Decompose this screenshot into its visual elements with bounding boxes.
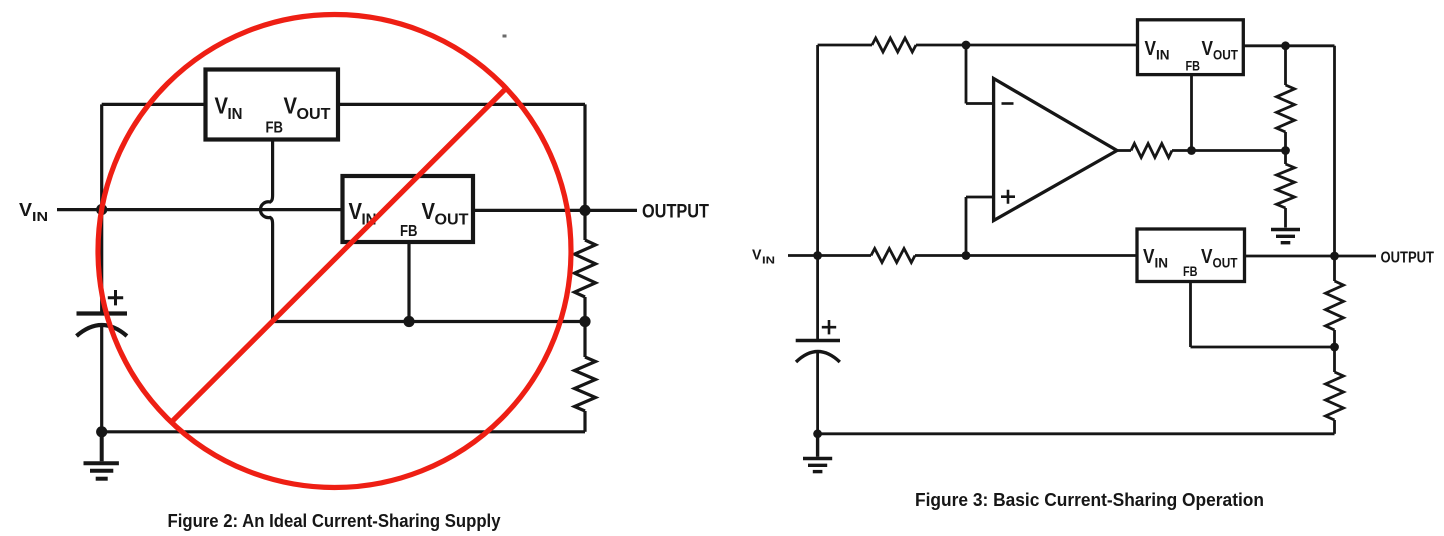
regulator block U2 <box>343 176 474 242</box>
wire output divider middle <box>1333 330 1336 372</box>
svg-text:V: V <box>1143 246 1155 268</box>
svg-text:IN: IN <box>1155 256 1169 271</box>
wire VIN line to regulator U4 input <box>915 254 1137 257</box>
pin label VIN of U1 <box>215 93 243 124</box>
svg-text:V: V <box>1201 246 1213 268</box>
wire bottom return rail <box>102 430 585 433</box>
wire right rail between output node and R1 <box>583 210 586 240</box>
capacitor C2 curved plate <box>796 352 840 363</box>
pin label VIN of U3 <box>1145 38 1170 63</box>
pin label FB of U1 <box>266 120 284 137</box>
svg-text:OUTPUT: OUTPUT <box>1381 250 1435 267</box>
ground symbol (bottom left, right figure) <box>803 434 832 472</box>
node non-inverting branch dot <box>962 251 971 260</box>
node OUTPUT dot (right figure) <box>1330 252 1339 261</box>
pin label VOUT of U2 <box>422 198 469 229</box>
stray speck <box>503 35 507 38</box>
node VIN junction dot <box>96 204 107 215</box>
wire U4 FB line <box>1191 282 1335 348</box>
op-amp U5 triangle <box>994 79 1117 221</box>
node VIN label (left figure) <box>19 200 48 224</box>
node OUTPUT label (right figure) <box>1381 250 1435 267</box>
wire FB node to R2 <box>583 322 586 358</box>
wire left rail below capacitor to ground node <box>816 352 819 434</box>
svg-text:OUT: OUT <box>297 106 331 123</box>
svg-text:IN: IN <box>228 106 243 123</box>
pin label VOUT of U4 <box>1201 246 1238 271</box>
svg-text:IN: IN <box>32 209 48 224</box>
svg-text:FB: FB <box>1183 263 1198 279</box>
svg-text:OUT: OUT <box>1213 48 1239 63</box>
pin label FB of U2 <box>400 223 418 240</box>
wire top-left horizontal to regulator 1 input <box>102 103 206 106</box>
svg-text:IN: IN <box>1156 48 1170 63</box>
svg-text:OUT: OUT <box>1213 256 1239 271</box>
svg-text:V: V <box>284 93 298 119</box>
node ground junction dot <box>96 426 107 437</box>
capacitor C2 top plate <box>796 339 840 342</box>
svg-text:FB: FB <box>1186 58 1201 74</box>
svg-text:V: V <box>1145 38 1157 60</box>
node VIN label (right figure) <box>752 248 775 267</box>
wire divider top segment <box>1284 46 1287 85</box>
pin label FB of U3 <box>1186 58 1201 74</box>
node FB divider tap dot <box>579 316 590 327</box>
resistor R6 (upper divider, right figure) <box>1277 85 1295 132</box>
resistor R9 (lower output divider) <box>1326 372 1344 420</box>
wire right rail top segment <box>583 104 586 210</box>
resistor R7 (lower divider, right figure) <box>1277 164 1295 208</box>
pin label VOUT of U1 <box>284 93 331 124</box>
wire VIN lead to input resistor <box>788 254 871 257</box>
node divider tap dot <box>1281 146 1290 155</box>
wire bottom return rail (right figure) <box>818 432 1335 435</box>
node output divider tap dot <box>1330 343 1339 352</box>
wire VIN lead into fig2 <box>57 208 343 211</box>
regulator block U1 <box>206 70 339 140</box>
wire U3 FB line <box>1190 75 1193 151</box>
svg-text:OUTPUT: OUTPUT <box>642 202 709 223</box>
caption Figure 2 <box>168 510 502 531</box>
wire OUTPUT lead <box>590 209 637 212</box>
prohibition slash (red) <box>173 89 506 421</box>
svg-text:V: V <box>215 93 229 119</box>
capacitor C2 plus sign <box>822 320 836 334</box>
caption Figure 3 <box>915 489 1264 510</box>
svg-text:Figure 2: An Ideal Current-Sha: Figure 2: An Ideal Current-Sharing Suppl… <box>168 510 502 531</box>
op-amp plus sign <box>1001 190 1015 204</box>
pin label FB of U4 <box>1183 263 1198 279</box>
wire op-amp output to resistor <box>1117 149 1131 152</box>
wire output divider bottom segment <box>1333 420 1336 434</box>
node OUTPUT dot <box>579 205 590 216</box>
wire top rail to regulator U3 input <box>916 44 1138 47</box>
prohibition circle (red) <box>98 15 571 488</box>
svg-text:V: V <box>349 198 363 224</box>
wire left vertical rail (lower, capacitor to ground node) <box>100 325 103 432</box>
wire left rail upper (junction up to top wire) <box>816 45 819 256</box>
wire U1 output to right rail <box>338 103 585 106</box>
capacitor C1 plus sign <box>108 290 123 305</box>
wire output divider top segment <box>1333 256 1336 281</box>
pin label VOUT of U3 <box>1202 38 1239 63</box>
svg-text:V: V <box>752 248 762 264</box>
wire divider to ground <box>1284 208 1287 228</box>
resistor R4 (VIN line resistor) <box>871 249 915 263</box>
wire U4 output to OUTPUT node and lead <box>1245 255 1377 258</box>
node U2 FB junction dot <box>403 316 414 327</box>
wire U2 output to OUTPUT node <box>473 209 585 212</box>
ground symbol (mid, right figure) <box>1271 230 1300 243</box>
wire R2 to bottom rail <box>583 411 586 432</box>
svg-text:V: V <box>422 198 436 224</box>
pin label VIN of U4 <box>1143 246 1168 271</box>
regulator block U4 <box>1137 229 1245 282</box>
wire FB bus horizontal <box>273 320 585 323</box>
node OUTPUT label (left figure) <box>642 202 709 223</box>
svg-text:FB: FB <box>266 120 284 137</box>
wire op-amp output line to divider <box>1172 149 1286 152</box>
svg-text:V: V <box>1202 38 1214 60</box>
wire top rail left segment <box>818 44 872 47</box>
op-amp minus sign <box>1002 102 1014 105</box>
node bottom ground junction dot <box>813 429 822 438</box>
wire right rail down to OUTPUT node <box>1333 46 1336 256</box>
svg-text:FB: FB <box>400 223 418 240</box>
regulator block U3 <box>1138 20 1244 75</box>
node U3 FB junction dot <box>1187 146 1196 155</box>
wire U2 FB line <box>407 242 410 322</box>
wire left rail lower (junction to capacitor plate) <box>816 256 819 341</box>
resistor R2 (lower divider, left figure) <box>575 357 596 411</box>
svg-text:Figure 3: Basic Current-Sharin: Figure 3: Basic Current-Sharing Operatio… <box>915 489 1264 510</box>
node op-amp minus branch dot <box>962 41 971 50</box>
capacitor C1 curved plate <box>77 325 127 336</box>
pin label VIN of U2 <box>349 198 377 229</box>
ground symbol (left figure) <box>84 432 119 479</box>
svg-text:OUT: OUT <box>435 212 469 229</box>
wire U1 FB line with hop over VIN wire <box>260 140 272 322</box>
resistor R8 (upper output divider) <box>1326 281 1344 330</box>
wire left vertical rail (upper, to capacitor top plate) <box>100 104 103 313</box>
node U3 output divider dot <box>1281 41 1290 50</box>
resistor R1 (upper divider, left figure) <box>575 240 596 297</box>
wire op-amp non-inverting input <box>966 197 994 256</box>
node VIN junction dot (right figure) <box>813 251 822 260</box>
wire op-amp inverting input <box>966 45 994 104</box>
wire U3 output to right corner <box>1243 44 1334 47</box>
svg-text:V: V <box>19 200 32 220</box>
wire R1 to FB node <box>583 297 586 322</box>
wire divider middle segment <box>1284 132 1287 164</box>
resistor R3 (top sense resistor) <box>872 38 916 52</box>
resistor R5 (op-amp output) <box>1131 144 1172 158</box>
capacitor C1 top plate <box>77 311 128 315</box>
svg-text:IN: IN <box>762 255 775 267</box>
